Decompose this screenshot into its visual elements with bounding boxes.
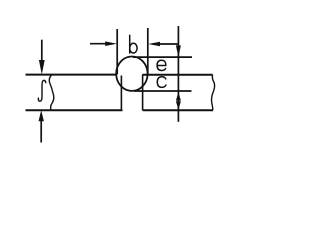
arrowhead up at lower extension line — [176, 92, 181, 101]
arrowhead down at plate bottom — [176, 101, 181, 110]
b dimension left tail — [90, 43, 112, 45]
bar-break squiggle (integral sign) — [38, 80, 46, 101]
thickness dim line top (left side) — [41, 40, 43, 68]
extension line from weld bottom — [134, 90, 192, 92]
weld nugget ellipse — [116, 56, 147, 90]
right plate wavy break line — [211, 75, 214, 111]
extension line from weld top — [133, 56, 192, 58]
b left arrowhead — [105, 41, 117, 46]
label e — [157, 60, 166, 70]
b right arrowhead — [148, 42, 160, 47]
right plate bottom edge — [143, 109, 213, 111]
right plate top edge — [142, 74, 212, 76]
b extension line left — [116, 29, 118, 74]
label c — [157, 77, 166, 88]
label b bowl — [130, 43, 137, 53]
thickness top arrowhead — [39, 60, 45, 75]
left plate bottom edge — [26, 109, 123, 111]
thickness dim line bottom (left side) — [40, 114, 42, 143]
e/c shared dimension line — [177, 26, 179, 122]
left plate end edge at weld — [120, 76, 122, 111]
e top arrowhead pointing down — [176, 45, 181, 57]
right plate end edge at weld — [142, 75, 144, 111]
label b stem — [129, 35, 131, 53]
b extension line right — [147, 28, 149, 74]
left plate top edge — [26, 74, 117, 76]
thickness bottom arrowhead — [39, 110, 44, 121]
left plate wavy break line — [49, 74, 54, 110]
b dimension right tail — [153, 43, 178, 45]
